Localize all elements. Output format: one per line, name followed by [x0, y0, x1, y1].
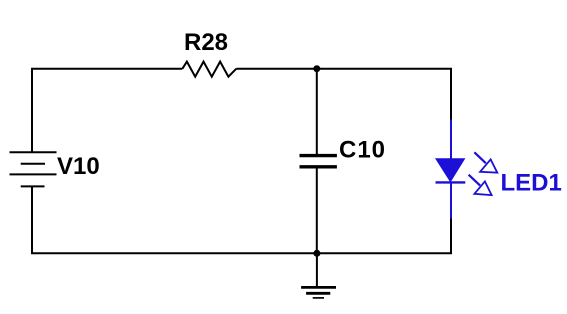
- svg-text:R28: R28: [184, 29, 228, 56]
- svg-text:LED1: LED1: [501, 170, 562, 197]
- svg-text:V10: V10: [57, 153, 100, 180]
- svg-text:C10: C10: [339, 137, 386, 164]
